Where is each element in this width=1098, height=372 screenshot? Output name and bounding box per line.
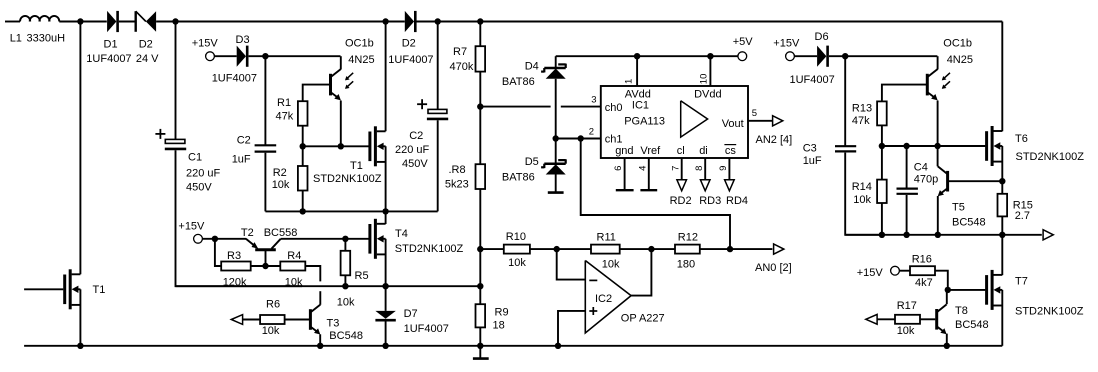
wire C2 lead lower — [437, 120, 439, 211]
label IC1 — [632, 99, 649, 111]
resistor R2 — [298, 166, 308, 191]
svg-text:C1: C1 — [188, 152, 202, 164]
wire +15V to T2 emitter — [202, 238, 246, 240]
terminal +5V — [738, 52, 747, 61]
wire opamp out — [631, 249, 651, 296]
label di — [699, 145, 708, 157]
label R10 10k — [506, 231, 527, 269]
wire OC1b-right emitter — [937, 101, 939, 147]
svg-text:9: 9 — [718, 166, 729, 171]
junction R1/R2 node — [300, 143, 306, 149]
wire ch0 right seg — [561, 106, 601, 108]
svg-text:10k: 10k — [262, 325, 280, 337]
diode D1 — [107, 11, 118, 32]
junction ch1 node D4D5 — [553, 135, 559, 141]
svg-text:AN2 [4]: AN2 [4] — [756, 134, 793, 146]
pin 10 number — [698, 74, 709, 85]
label ch1 — [605, 133, 623, 145]
label AN2 [4] — [756, 134, 793, 146]
junction D6 node — [842, 53, 848, 59]
wire D6 to OC1b right collector — [829, 55, 937, 57]
svg-text:470k: 470k — [450, 61, 474, 73]
svg-text:STD2NK100Z: STD2NK100Z — [313, 173, 382, 185]
wire OC1b-left base lead — [303, 85, 329, 102]
svg-text:R9: R9 — [495, 307, 509, 319]
svg-text:4k7: 4k7 — [915, 277, 933, 289]
label DVdd — [694, 89, 722, 101]
svg-text:R3: R3 — [227, 250, 241, 262]
wire y286 — [176, 285, 481, 287]
svg-text:1UF4007: 1UF4007 — [404, 323, 449, 335]
wire C3 bottom to rail — [845, 153, 882, 235]
svg-text:BC548: BC548 — [955, 319, 989, 331]
wire +15V to R16 — [899, 270, 910, 272]
pin 6 number — [613, 166, 624, 171]
junction bottom T3 — [317, 343, 323, 349]
wire R11 to R12 — [620, 248, 675, 250]
svg-text:220 uF: 220 uF — [395, 144, 430, 156]
svg-text:+5V: +5V — [733, 36, 754, 48]
wire R14 top — [881, 146, 883, 180]
svg-text:DVdd: DVdd — [694, 89, 722, 101]
junction OC1b emitter node — [338, 143, 344, 149]
svg-text:2.7: 2.7 — [1015, 210, 1030, 222]
resistor R1 — [298, 101, 308, 126]
diode D4 BAT86 — [541, 64, 566, 79]
wire C2a top lead — [264, 56, 266, 145]
junction T5 base node — [999, 178, 1005, 184]
wire ch0 left seg — [480, 106, 550, 108]
wire T2 collector to T4 gate — [281, 238, 369, 240]
svg-text:STD2NK100Z: STD2NK100Z — [1015, 305, 1084, 317]
resistor R9 — [476, 304, 486, 327]
label Vref — [640, 145, 661, 157]
wire T8 emitter down — [946, 334, 948, 346]
svg-text:T1: T1 — [93, 284, 106, 296]
svg-text:T8: T8 — [955, 305, 968, 317]
svg-text:5: 5 — [752, 108, 757, 119]
svg-text:1UF4007: 1UF4007 — [388, 54, 433, 66]
pin 1 number — [623, 79, 634, 84]
junction pin10 node — [707, 53, 713, 59]
label R6 10k — [262, 299, 280, 337]
wire T4 drain — [385, 211, 387, 224]
label ch0 — [605, 102, 623, 114]
wire R10 left lead — [480, 248, 504, 250]
resistor R14 — [877, 180, 887, 203]
svg-text:+15V: +15V — [857, 267, 884, 279]
svg-text:47k: 47k — [852, 115, 870, 127]
resistor R8 — [476, 164, 486, 189]
wire R6 to T3 base — [285, 319, 309, 321]
junction ch1 x580 — [578, 135, 584, 141]
junction T8 collector node — [945, 287, 951, 293]
svg-text:D1: D1 — [104, 38, 118, 50]
svg-text:RD3: RD3 — [699, 195, 721, 207]
wire D5 cathode up — [555, 139, 557, 164]
svg-text:RD4: RD4 — [726, 195, 748, 207]
capacitor C2 1uF (left) — [255, 145, 277, 151]
wire OC1b-left collector — [340, 56, 342, 69]
svg-text:BAT86: BAT86 — [502, 172, 535, 184]
junction rail R14 — [879, 232, 885, 238]
wire OC1b-left emitter to gate wire — [340, 101, 342, 147]
wire R15 bottom — [1001, 216, 1003, 234]
junction rail C4 — [903, 232, 909, 238]
capacitor C1 lead upper — [175, 22, 177, 140]
label D6 1UF4007 — [790, 74, 835, 86]
terminal arrow right rail — [1043, 230, 1053, 240]
transistor T7 STD2NK100Z — [987, 270, 1003, 310]
pin 8 number — [694, 166, 705, 171]
svg-text:T3: T3 — [327, 317, 340, 329]
wire C4 top — [906, 146, 908, 189]
wire top rail left segment — [5, 21, 20, 23]
wire ch1 to AN0 path — [581, 139, 730, 250]
resistor R6 — [260, 315, 285, 324]
diode D2 24V zener — [136, 11, 156, 32]
resistor R13 — [877, 101, 887, 125]
junction bottom T8 — [944, 343, 950, 349]
wire T4 source down — [385, 239, 387, 286]
pin 4 number — [637, 166, 648, 171]
wire T5 emitter down — [937, 196, 939, 235]
wire R13 bottom — [881, 125, 883, 146]
wire R5 top lead — [344, 239, 346, 251]
svg-text:R14: R14 — [852, 181, 872, 193]
label C2 220uF 450V — [395, 130, 430, 170]
svg-text:T4: T4 — [395, 228, 408, 240]
svg-text:4N25: 4N25 — [947, 54, 973, 66]
resistor R12 — [675, 245, 700, 254]
wire OC1b-right base lead — [882, 85, 926, 102]
label D6 — [815, 31, 829, 43]
wire T1mid drain up — [385, 22, 387, 132]
wire arrow to R6 — [243, 319, 261, 321]
label D7 1UF4007 — [404, 308, 449, 335]
junction D3 node — [262, 53, 268, 59]
label D4 BAT86 — [502, 60, 539, 88]
transistor T5 BC548 — [938, 166, 948, 196]
svg-text:1uF: 1uF — [803, 155, 822, 167]
svg-text:R17: R17 — [897, 300, 917, 312]
wire C3 top lead — [844, 56, 846, 146]
resistor R16 — [910, 266, 935, 275]
svg-text:R11: R11 — [597, 231, 616, 243]
junction y211 T1 source — [382, 208, 388, 214]
svg-text:R10: R10 — [506, 231, 526, 243]
svg-text:STD2NK100Z: STD2NK100Z — [1016, 151, 1085, 163]
label C1 220uF 450V — [186, 152, 221, 194]
svg-text:Vout: Vout — [722, 118, 744, 130]
label D5 BAT86 — [502, 156, 539, 184]
label C2 1uF left — [232, 134, 251, 165]
svg-text:OP A227: OP A227 — [621, 312, 665, 324]
wire T5 base — [949, 180, 1003, 182]
diode D3 — [237, 46, 248, 67]
label T7 — [1015, 275, 1028, 287]
wire +15V to D6 — [794, 55, 817, 57]
terminal arrow AN0 — [774, 244, 784, 254]
svg-text:R16: R16 — [912, 254, 932, 266]
svg-text:R5: R5 — [355, 270, 369, 282]
label T1 left — [93, 284, 106, 296]
svg-text:D2: D2 — [139, 38, 153, 50]
junction rail R15/T7 — [999, 232, 1005, 238]
wire R7 bottom — [479, 72, 481, 107]
label +15V R16 — [857, 267, 884, 279]
svg-text:1uF: 1uF — [232, 153, 251, 165]
svg-text:1UF4007: 1UF4007 — [212, 73, 257, 85]
wire R2 bottom — [302, 191, 304, 212]
svg-text:220 uF: 220 uF — [186, 167, 221, 179]
label R4 10k — [285, 250, 303, 288]
label R16 4k7 — [912, 254, 933, 289]
wire R8 top lead — [479, 107, 481, 165]
wire bottom rail — [24, 345, 1002, 347]
svg-text:1UF4007: 1UF4007 — [790, 74, 835, 86]
svg-text:10k: 10k — [602, 258, 620, 270]
resistor R15 — [998, 194, 1008, 217]
svg-text:di: di — [699, 145, 708, 157]
wire T6 source down — [1001, 146, 1003, 194]
pin 10 DVdd lead — [709, 56, 711, 86]
terminal arrow R17 — [866, 314, 877, 324]
junction right gate T5 — [934, 143, 940, 149]
pin 9 lead cs — [725, 158, 735, 191]
label T4 — [395, 228, 408, 240]
svg-text:T7: T7 — [1015, 275, 1028, 287]
label T8 BC548 — [955, 305, 989, 331]
svg-text:1: 1 — [623, 79, 634, 84]
label RD2 RD3 RD4 — [670, 195, 748, 207]
svg-text:10k: 10k — [508, 257, 526, 269]
wire D1-D2 — [119, 21, 136, 23]
junction AN0 node — [727, 246, 733, 252]
wire gate T1mid — [303, 145, 369, 147]
pin 4 lead Vref — [640, 158, 657, 190]
svg-text:3: 3 — [591, 94, 596, 105]
svg-text:7: 7 — [671, 166, 682, 171]
wire y211 — [265, 210, 437, 212]
wire x80 top to T1 drain — [79, 22, 81, 275]
resistor R7 — [476, 46, 486, 71]
wire C1 lead lower to y286 corner — [176, 150, 303, 286]
svg-text:L1: L1 — [10, 32, 22, 44]
resistor R5 — [341, 251, 351, 275]
wire x480 y249-y286 — [479, 249, 481, 286]
transistor T1 (left MOSFET) — [65, 269, 81, 309]
junction top rail x385 (T1 drain) — [382, 18, 388, 24]
pin 3 number — [591, 94, 596, 105]
transistor T8 BC548 — [937, 304, 947, 334]
wire ch1 — [556, 138, 601, 140]
opto transistor OC1b left — [331, 69, 341, 100]
svg-text:C3: C3 — [803, 142, 817, 154]
svg-text:180: 180 — [677, 258, 695, 270]
amp triangle IC1 — [681, 101, 708, 137]
svg-text:R4: R4 — [287, 250, 301, 262]
svg-text:cs: cs — [725, 145, 737, 157]
wire down to R3 — [215, 239, 221, 266]
label cl — [677, 145, 685, 157]
svg-text:18: 18 — [493, 319, 505, 331]
label T3 BC548 — [327, 317, 363, 342]
wire R17 to T8 base — [920, 318, 935, 320]
diode D7 — [375, 311, 395, 320]
label D1 1UF4007 — [86, 38, 131, 65]
junction top rail x80 — [77, 18, 83, 24]
label +15V topleft — [192, 37, 219, 49]
svg-text:T5: T5 — [952, 202, 965, 214]
wire R1 bottom — [302, 126, 304, 147]
svg-text:R7: R7 — [453, 46, 467, 58]
inductor L1 — [20, 16, 107, 22]
wire R5 bottom lead — [344, 275, 346, 286]
svg-text:10k: 10k — [897, 325, 915, 337]
opto transistor OC1b right — [927, 69, 937, 100]
label OC1b 4N25 right — [943, 37, 973, 66]
svg-text:R1: R1 — [277, 97, 291, 109]
label R2 10k — [272, 167, 290, 191]
transistor T3 BC548 — [310, 305, 320, 335]
wire top rail right segment — [417, 21, 1003, 23]
svg-text:+15V: +15V — [773, 37, 800, 49]
wire R8 bottom lead — [479, 189, 481, 249]
svg-text:10k: 10k — [272, 179, 290, 191]
label T7 STD2NK100Z — [1015, 305, 1084, 317]
svg-text:BC548: BC548 — [329, 330, 363, 342]
svg-text:gnd: gnd — [615, 145, 633, 157]
svg-text:450V: 450V — [186, 181, 212, 193]
wire T1mid source down — [385, 146, 387, 211]
svg-text:D5: D5 — [525, 156, 539, 168]
terminal +15V T2 — [194, 234, 203, 243]
wire T7 source down — [1001, 290, 1003, 346]
terminal arrow R6 — [231, 315, 242, 325]
svg-text:cl: cl — [677, 145, 685, 157]
label D2 24 V — [136, 38, 159, 65]
light arrows OC1b right — [942, 73, 950, 89]
junction R5 top node — [342, 236, 348, 242]
label T1 mid — [350, 160, 363, 172]
svg-text:R6: R6 — [266, 299, 280, 311]
pin 7 lead cl — [677, 158, 687, 191]
svg-text:ch0: ch0 — [605, 102, 623, 114]
label L1 3330uH — [10, 32, 65, 44]
svg-text:3330uH: 3330uH — [27, 32, 66, 44]
junction bottom opamp+ — [555, 343, 561, 349]
transistor T1 STD2NK100Z (mid) — [370, 126, 386, 166]
pin 7 number — [671, 166, 682, 171]
junction opamp out node — [648, 246, 654, 252]
svg-text:BC558: BC558 — [264, 227, 298, 239]
ground main — [473, 346, 489, 359]
label gnd — [615, 145, 633, 157]
label R1 47k — [276, 97, 294, 122]
label T6 — [1015, 133, 1028, 145]
ground D5 — [548, 191, 564, 194]
label D2b 1UF4007 — [388, 38, 433, 66]
label OPA227 — [621, 312, 665, 324]
svg-text:R12: R12 — [678, 231, 698, 243]
svg-text:BAT86: BAT86 — [502, 76, 535, 88]
label D3 1UF4007 — [212, 73, 257, 85]
capacitor C1 (electrolytic 220uF 450V) — [155, 129, 186, 149]
pin 5 number — [752, 108, 757, 119]
transistor T2 BC558 (PNP) — [246, 239, 281, 250]
svg-text:IC1: IC1 — [632, 99, 649, 111]
resistor R4 — [280, 262, 305, 271]
wire C4 bottom — [906, 195, 908, 235]
svg-text:D2: D2 — [402, 38, 416, 50]
svg-text:8: 8 — [694, 166, 705, 171]
svg-text:D6: D6 — [815, 31, 829, 43]
wire arrow to R17 — [877, 318, 895, 320]
wire R4 right lead with hop — [305, 266, 320, 305]
svg-text:IC2: IC2 — [595, 293, 612, 305]
svg-text:1UF4007: 1UF4007 — [86, 53, 131, 65]
svg-text:+15V: +15V — [178, 220, 205, 232]
svg-text:T1: T1 — [350, 160, 363, 172]
svg-text:C2: C2 — [237, 134, 251, 146]
wire OC1b-right collector — [937, 56, 939, 69]
svg-text:RD2: RD2 — [670, 195, 692, 207]
label R14 10k — [852, 181, 872, 206]
wire D2 to D2b — [156, 21, 405, 23]
label T4 STD2NK100Z — [395, 243, 464, 255]
capacitor C4 470p — [897, 189, 918, 194]
label C4 470p — [914, 161, 938, 185]
junction right gate C4 — [903, 143, 909, 149]
label R11 10k — [597, 231, 621, 270]
resistor R3 — [221, 262, 251, 271]
label IC2 — [595, 293, 612, 305]
wire T1 gate lead — [24, 288, 63, 290]
label +15V D6 — [773, 37, 800, 49]
svg-text:.R8: .R8 — [449, 164, 466, 176]
svg-text:2: 2 — [589, 127, 594, 138]
transistor T4 STD2NK100Z — [370, 219, 386, 259]
label PGA113 — [624, 115, 665, 127]
diode D6 — [817, 46, 828, 67]
svg-text:R2: R2 — [273, 167, 287, 179]
label R17 10k — [897, 300, 917, 337]
capacitor C2 220uF lead upper — [437, 22, 439, 110]
svg-text:10: 10 — [698, 74, 709, 85]
junction R10 left node — [477, 246, 483, 252]
op-amp IC2 OPA227 — [585, 261, 631, 334]
wire inv input — [557, 249, 585, 280]
wire R16 to T7 gate — [935, 271, 948, 290]
label AVdd — [625, 89, 651, 101]
wire T8 collector up — [946, 290, 948, 304]
label T5 BC548 — [952, 202, 986, 229]
svg-text:OC1b: OC1b — [943, 37, 972, 49]
wire T8col node to gate — [948, 289, 986, 291]
junction bottom x480 — [477, 343, 483, 349]
label D3 — [236, 34, 250, 46]
wire R14 bottom — [881, 203, 883, 235]
wire R9 bottom lead — [479, 327, 481, 345]
svg-text:10k: 10k — [853, 194, 871, 206]
pin 1 AVdd lead — [636, 56, 638, 86]
wire T6 drain (top right corner) — [1001, 22, 1003, 132]
svg-text:C2: C2 — [409, 130, 423, 142]
label R9 18 — [493, 307, 509, 332]
label Vout — [722, 118, 744, 130]
svg-text:ch1: ch1 — [605, 133, 623, 145]
